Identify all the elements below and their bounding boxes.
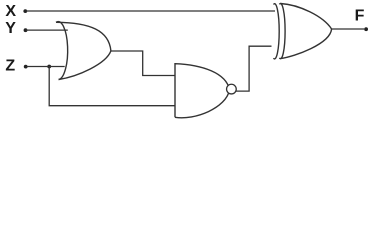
svg-text:Z: Z bbox=[5, 58, 15, 75]
terminal dot Z bbox=[24, 65, 28, 69]
wire X to XOR top input bbox=[26, 10, 275, 12]
svg-text:F: F bbox=[355, 8, 365, 25]
terminal dot F bbox=[364, 27, 368, 31]
wire Y to OR top input bbox=[26, 29, 68, 31]
XOR extra input arc bbox=[274, 4, 280, 59]
wire XOR output to F bbox=[332, 28, 365, 30]
terminal dot X bbox=[23, 9, 27, 13]
XOR body back arc bbox=[279, 3, 285, 58]
junction dot on Z wire bbox=[47, 65, 51, 69]
XOR body bottom curve bbox=[281, 29, 332, 59]
wire NAND output to XOR bottom input bbox=[236, 46, 272, 91]
NAND gate U2 bbox=[175, 64, 236, 118]
NAND output bubble bbox=[227, 84, 237, 94]
wire Z junction down to NAND bottom input bbox=[49, 67, 175, 106]
terminal dot Y bbox=[24, 28, 28, 32]
OR gate U1 bbox=[56, 22, 111, 80]
svg-text:Y: Y bbox=[5, 20, 16, 37]
XOR gate U3 bbox=[274, 3, 332, 58]
wire Z to OR bottom input bbox=[27, 66, 65, 68]
wire OR output to NAND top input bbox=[111, 51, 175, 76]
XOR body top curve bbox=[281, 4, 332, 30]
svg-text:X: X bbox=[5, 3, 16, 20]
